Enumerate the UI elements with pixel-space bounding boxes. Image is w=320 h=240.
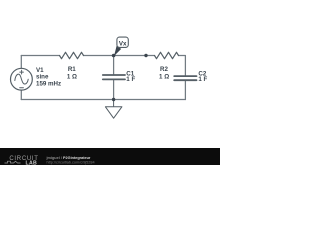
svg-text:R2: R2: [160, 66, 168, 73]
wire node to junction: [114, 55, 146, 57]
resistor R2: [155, 52, 179, 58]
svg-text:1 Ω: 1 Ω: [67, 73, 77, 80]
wire bottom rail: [21, 99, 185, 101]
V1 plus sign: [20, 70, 24, 74]
voltage source V1 circle: [11, 68, 33, 90]
wire R1 to node: [84, 55, 114, 57]
ground symbol: [105, 100, 122, 119]
wire top-left horizontal: [21, 55, 59, 57]
wire C1 top lead: [113, 56, 115, 76]
node junction dot at ground: [112, 98, 115, 101]
svg-text:sine: sine: [36, 73, 49, 80]
svg-text:jmiguel / P2Gintegrateur: jmiguel / P2Gintegrateur: [46, 156, 91, 160]
node junction dot mid top wire: [144, 54, 147, 57]
svg-text:LAB: LAB: [26, 160, 38, 165]
wire left vertical top: [20, 56, 22, 69]
node junction dot at Vx tap: [112, 54, 116, 58]
wire junction to R2: [146, 55, 155, 57]
svg-text:1 F: 1 F: [126, 76, 135, 83]
wire C1 bottom lead: [113, 79, 115, 99]
footer black bar: [0, 148, 220, 165]
svg-text:159 mHz: 159 mHz: [36, 80, 61, 87]
V1 minus sign: [20, 87, 24, 89]
CircuitLab logo waveform: [5, 161, 21, 163]
wire left vertical bottom: [20, 90, 22, 99]
wire C2 bottom lead: [184, 80, 186, 99]
wire R2 to top-right corner: [179, 56, 186, 77]
capacitor C2 plates: [174, 76, 196, 80]
svg-text:1 F: 1 F: [198, 76, 207, 83]
svg-text:Vx: Vx: [119, 40, 127, 47]
probe Vx box: [117, 37, 128, 47]
svg-text:R1: R1: [68, 66, 76, 73]
probe Vx pointer wedge: [114, 46, 121, 56]
capacitor C1 plates: [103, 75, 125, 79]
resistor R1: [60, 52, 84, 58]
V1 sine glyph: [15, 74, 28, 84]
svg-text:1 Ω: 1 Ω: [159, 73, 169, 80]
svg-text:http://circuitlab.com/c/9j5284: http://circuitlab.com/c/9j5284: [47, 160, 95, 164]
